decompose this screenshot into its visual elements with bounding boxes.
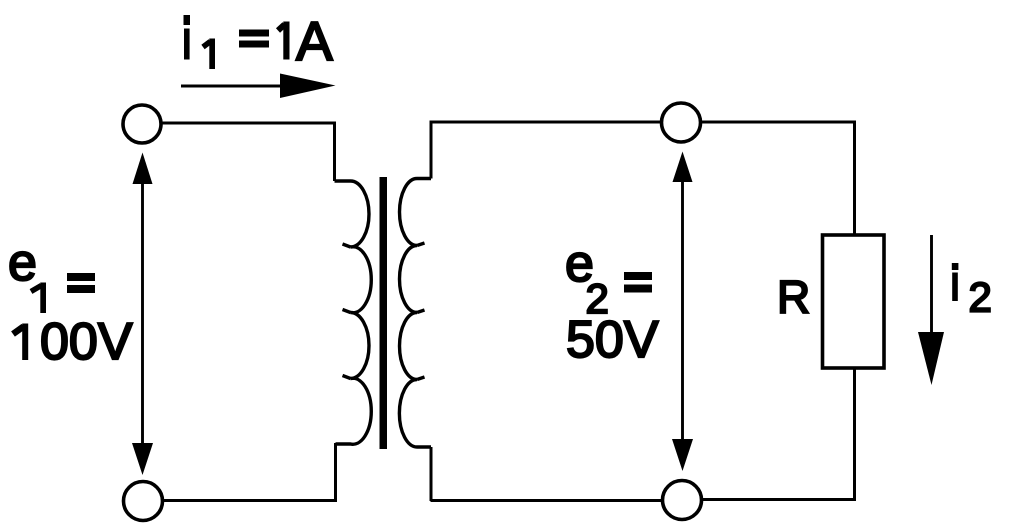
svg-text:00V: 00V (40, 313, 133, 371)
wire right secondary vertical top (430, 122, 433, 179)
label 100V (13, 324, 28, 361)
svg-text:R: R (777, 271, 810, 323)
svg-text:50V: 50V (566, 311, 659, 369)
terminal circle top-right (662, 103, 701, 142)
wire left primary vertical top (333, 122, 336, 182)
svg-text:A: A (296, 10, 333, 72)
svg-text:2: 2 (969, 274, 992, 321)
svg-text:e: e (8, 234, 37, 292)
terminal circle top-left (123, 105, 161, 143)
wire top-right horizontal from secondary to circle (430, 121, 662, 124)
label =1A (239, 22, 290, 60)
wire bottom-left horizontal (163, 499, 338, 502)
voltage arrow e2 (double headed) (672, 152, 693, 472)
wire right vertical to resistor top (853, 121, 856, 236)
label i2 (952, 263, 959, 301)
wire top-left horizontal (161, 122, 336, 125)
terminal circle bottom-right (663, 481, 702, 520)
transformer core (380, 177, 388, 449)
wire bottom-right horizontal corner to circle (703, 498, 857, 501)
transformer primary winding L1 (335, 181, 372, 444)
label i1 (184, 15, 216, 69)
wire left primary vertical bottom (334, 443, 337, 500)
wire right vertical from resistor bottom (853, 368, 856, 500)
resistor R body (823, 235, 885, 368)
wire right secondary vertical bottom (430, 447, 433, 501)
terminal circle bottom-left (124, 482, 163, 521)
current arrow i2 (918, 235, 944, 385)
voltage arrow e1 (double headed) (132, 153, 153, 476)
wire bottom-right horizontal circle to secondary (431, 499, 662, 502)
current arrow i1 (181, 74, 336, 99)
wire top-right horizontal circle to corner (701, 121, 857, 124)
transformer secondary winding L2 (399, 179, 431, 448)
